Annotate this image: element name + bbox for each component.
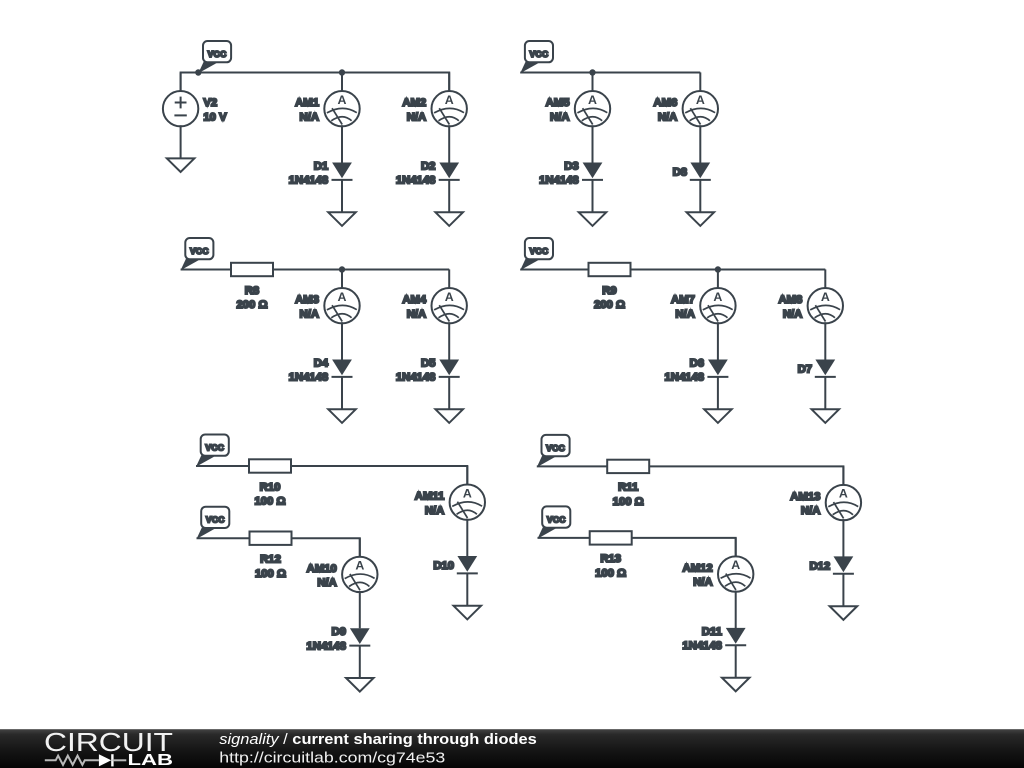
svg-text:R10: R10: [260, 481, 281, 493]
svg-text:AM2: AM2: [402, 97, 426, 109]
power flag VCC: [537, 435, 570, 467]
svg-text:D5: D5: [421, 357, 435, 369]
wire: [632, 538, 736, 557]
svg-text:1N4148: 1N4148: [396, 175, 436, 187]
wire: [196, 465, 249, 467]
svg-text:N/A: N/A: [407, 111, 426, 123]
svg-text:N/A: N/A: [550, 111, 569, 123]
svg-text:R8: R8: [245, 285, 259, 297]
ground: [328, 409, 356, 423]
wire: [538, 537, 590, 539]
ammeter AM1: [295, 72, 360, 162]
logo LAB: [128, 752, 174, 768]
svg-text:R11: R11: [618, 482, 638, 494]
diode D11: [682, 626, 746, 678]
ground: [435, 212, 463, 226]
diode D12: [809, 556, 853, 606]
svg-text:100 Ω: 100 Ω: [613, 496, 644, 508]
svg-text:N/A: N/A: [675, 308, 694, 320]
wire: [292, 538, 360, 557]
ground: [435, 409, 463, 423]
svg-text:V2: V2: [203, 97, 217, 109]
svg-text:D11: D11: [702, 626, 722, 638]
ammeter AM2: [402, 72, 467, 162]
svg-text:D10: D10: [433, 560, 454, 572]
svg-text:200 Ω: 200 Ω: [594, 299, 625, 311]
svg-text:N/A: N/A: [693, 577, 712, 589]
svg-text:AM1: AM1: [295, 97, 319, 109]
power flag VCC: [520, 238, 553, 270]
svg-text:LAB: LAB: [128, 752, 174, 768]
power flag VCC: [181, 238, 214, 270]
diode D2: [396, 160, 460, 212]
resistor R9: [589, 263, 631, 311]
ammeter AM5: [546, 72, 611, 162]
wire: [650, 466, 844, 485]
svg-text:AM12: AM12: [683, 563, 713, 575]
svg-text:AM10: AM10: [307, 563, 337, 575]
svg-text:D7: D7: [798, 364, 812, 376]
ground: [687, 212, 715, 226]
ammeter AM12: [683, 538, 754, 628]
ground: [812, 409, 840, 423]
svg-text:D9: D9: [332, 626, 346, 638]
voltage source V2: [163, 73, 227, 159]
wire: [537, 465, 607, 467]
svg-text:1N4148: 1N4148: [289, 175, 329, 187]
ground: [328, 212, 356, 226]
svg-text:100 Ω: 100 Ω: [595, 568, 626, 580]
power flag VCC: [520, 41, 553, 73]
power flag VCC: [198, 41, 231, 73]
svg-text:1N4148: 1N4148: [306, 640, 346, 652]
power flag VCC: [196, 435, 229, 467]
logo schematic: resistor + diode: [45, 754, 127, 766]
footer bar: [0, 729, 1024, 768]
diode D6: [665, 357, 729, 409]
ammeter AM10: [307, 538, 378, 628]
ground: [346, 678, 374, 692]
diode D7: [798, 360, 836, 410]
junction: [589, 69, 595, 75]
svg-text:http://circuitlab.com/cg74e53: http://circuitlab.com/cg74e53: [219, 749, 445, 766]
wire: [520, 72, 700, 74]
svg-text:10 V: 10 V: [203, 111, 227, 123]
svg-text:D2: D2: [421, 160, 435, 172]
svg-text:D3: D3: [564, 160, 578, 172]
footer url: [219, 749, 445, 766]
power flag VCC: [197, 507, 230, 539]
diode D5: [396, 357, 460, 409]
footer title: [219, 731, 537, 748]
ammeter AM13: [790, 466, 861, 556]
svg-text:100 Ω: 100 Ω: [255, 568, 286, 580]
svg-text:signality / current sharing th: signality / current sharing through diod…: [219, 731, 537, 748]
ammeter AM7: [671, 269, 736, 359]
ground: [830, 606, 858, 620]
wire: [197, 537, 250, 539]
svg-text:N/A: N/A: [300, 111, 319, 123]
diode D4: [289, 357, 353, 409]
svg-text:R13: R13: [600, 553, 621, 565]
svg-text:AM7: AM7: [671, 294, 695, 306]
ammeter AM6: [653, 72, 718, 162]
ammeter AM3: [295, 269, 360, 359]
svg-text:N/A: N/A: [783, 308, 802, 320]
svg-text:D4: D4: [314, 357, 329, 369]
logo CIRCUIT: [44, 729, 173, 757]
svg-text:D1: D1: [314, 160, 328, 172]
ammeter AM8: [778, 269, 843, 359]
svg-text:N/A: N/A: [425, 505, 444, 517]
ground: [722, 678, 750, 692]
resistor R10: [249, 459, 291, 507]
junction: [339, 266, 345, 272]
svg-text:100 Ω: 100 Ω: [254, 496, 285, 508]
svg-text:R9: R9: [602, 285, 616, 297]
svg-text:R12: R12: [260, 554, 281, 566]
svg-text:1N4148: 1N4148: [665, 372, 705, 384]
junction: [339, 69, 345, 75]
diode D10: [433, 556, 477, 606]
svg-text:N/A: N/A: [317, 577, 336, 589]
wire: [631, 269, 826, 271]
resistor R8: [231, 263, 273, 311]
svg-text:AM3: AM3: [295, 294, 319, 306]
wire: [181, 269, 231, 271]
svg-text:AM13: AM13: [790, 491, 820, 503]
diode D1: [289, 160, 353, 212]
ammeter AM4: [402, 269, 467, 359]
svg-text:AM8: AM8: [778, 294, 802, 306]
svg-text:N/A: N/A: [801, 505, 820, 517]
svg-text:1N4148: 1N4148: [682, 640, 722, 652]
svg-text:1N4148: 1N4148: [396, 372, 436, 384]
svg-text:N/A: N/A: [300, 308, 319, 320]
svg-text:D6: D6: [690, 357, 704, 369]
ground: [454, 606, 482, 620]
junction: [195, 69, 201, 75]
svg-text:AM11: AM11: [415, 491, 445, 503]
resistor R12: [250, 532, 292, 580]
svg-text:AM5: AM5: [546, 97, 570, 109]
wire: [181, 73, 450, 92]
diode D3: [539, 160, 603, 212]
svg-text:D8: D8: [673, 167, 687, 179]
power flag VCC: [538, 506, 571, 538]
wire: [273, 269, 449, 271]
wire: [291, 466, 467, 485]
svg-text:D12: D12: [809, 561, 830, 573]
resistor R11: [607, 460, 649, 508]
svg-text:200 Ω: 200 Ω: [236, 299, 267, 311]
svg-text:AM4: AM4: [402, 294, 427, 306]
ground: [579, 212, 607, 226]
junction: [715, 266, 721, 272]
svg-text:1N4148: 1N4148: [539, 175, 579, 187]
diode D8: [673, 163, 711, 213]
ground: [167, 158, 195, 172]
ammeter AM11: [415, 466, 485, 556]
svg-text:AM6: AM6: [653, 97, 677, 109]
wire: [520, 269, 588, 271]
diode D9: [306, 626, 370, 678]
svg-text:N/A: N/A: [407, 308, 426, 320]
resistor R13: [590, 531, 632, 579]
ground: [704, 409, 732, 423]
svg-text:1N4148: 1N4148: [289, 372, 329, 384]
svg-text:N/A: N/A: [658, 111, 677, 123]
